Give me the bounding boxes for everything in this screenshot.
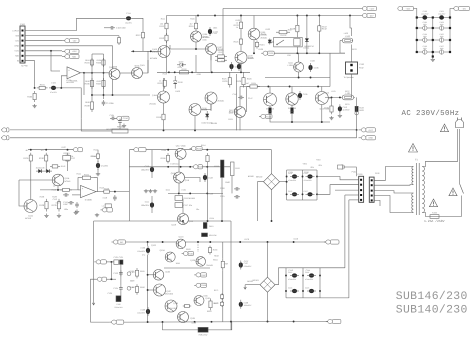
wire mains top <box>422 129 458 167</box>
wire rail417 <box>416 19 418 53</box>
svg-text:R142: R142 <box>61 165 66 168</box>
wire opamp minus in <box>61 76 67 88</box>
svg-text:Q118: Q118 <box>171 172 175 175</box>
wire p103 w1 <box>317 177 359 180</box>
svg-text:2N5401: 2N5401 <box>206 264 213 267</box>
svg-text:C127: C127 <box>304 190 308 193</box>
op-amp IC100B <box>81 186 97 202</box>
capacitor C137 <box>239 261 243 270</box>
svg-text:C117: C117 <box>56 202 60 205</box>
resistor R137 <box>66 153 76 164</box>
resistor R164 <box>221 259 224 271</box>
svg-text:100u/35V: 100u/35V <box>141 168 150 171</box>
wire q115 r <box>328 98 331 104</box>
resistor R134 <box>247 85 260 88</box>
junction dots outstage <box>291 121 323 123</box>
svg-text:R105: R105 <box>97 59 102 62</box>
svg-text:R138: R138 <box>39 204 45 207</box>
wire q108 r <box>201 104 211 110</box>
component R133 <box>355 106 358 111</box>
wire cross v2 <box>120 291 122 296</box>
resistor R140 <box>60 188 72 191</box>
svg-text:Q114: Q114 <box>65 177 71 180</box>
svg-text:C103 100n: C103 100n <box>116 27 126 30</box>
transistor Q129 <box>178 312 189 323</box>
svg-text:R137: R137 <box>345 90 350 93</box>
capacitor C144 <box>307 273 316 277</box>
svg-text:L100: L100 <box>344 32 348 35</box>
svg-text:1k: 1k <box>236 26 238 29</box>
capacitor C124 <box>290 174 299 178</box>
net flag NET2 <box>62 49 79 53</box>
transistor Q103 <box>152 46 170 58</box>
svg-text:BC546: BC546 <box>65 180 71 183</box>
wire v161 <box>163 122 165 130</box>
svg-text:R163: R163 <box>214 254 219 257</box>
svg-text:1k: 1k <box>236 22 238 25</box>
net flag VTOP <box>362 6 376 10</box>
net flag FT1 <box>340 165 345 169</box>
wire ft1 wire <box>343 167 357 176</box>
svg-text:R164: R164 <box>213 258 218 261</box>
svg-text:Q128: Q128 <box>173 302 178 305</box>
wire q115 up <box>321 87 323 92</box>
junction dots bus242 <box>147 241 295 243</box>
junction dots bus321 <box>147 321 295 323</box>
net flag FC1 <box>398 6 414 10</box>
wire q114 up <box>291 87 293 93</box>
connector P102 pins <box>350 64 352 66</box>
power switch <box>460 184 464 194</box>
svg-text:+15V: +15V <box>406 7 411 10</box>
net flag NET3 <box>62 54 79 58</box>
junction dots mid bus189 <box>57 189 68 191</box>
ground gnd opamp <box>74 211 78 215</box>
svg-text:C139: C139 <box>140 309 145 312</box>
resistor R124 <box>255 41 265 49</box>
svg-text:1845: 1845 <box>176 262 180 265</box>
svg-text:R159: R159 <box>209 193 214 196</box>
junction dots bus77 <box>298 77 312 79</box>
resistor R155 <box>161 153 170 163</box>
wire c103 link <box>104 27 109 29</box>
capacitor C100 <box>421 10 429 20</box>
svg-text:P102: P102 <box>375 172 379 175</box>
svg-text:C122: C122 <box>208 177 213 180</box>
wire mains cord2 <box>459 129 461 161</box>
ground gnd C112 <box>338 114 342 118</box>
svg-text:+15V: +15V <box>72 50 77 53</box>
wire in bus <box>84 72 109 74</box>
wire v297 <box>296 16 298 23</box>
wire caprow2 l <box>417 39 433 41</box>
wire v241b <box>240 31 242 37</box>
svg-text:47u/25V: 47u/25V <box>101 164 109 167</box>
svg-text:R141: R141 <box>84 174 90 177</box>
wire midamp v3 <box>182 199 184 213</box>
svg-text:C131: C131 <box>114 256 119 259</box>
wire br2 bot <box>267 292 269 321</box>
wire q114 dn <box>291 105 293 108</box>
transistor Q118 <box>174 172 185 183</box>
svg-text:C144: C144 <box>306 269 311 272</box>
svg-text:100n: 100n <box>64 208 68 211</box>
wire v306 <box>306 16 308 36</box>
bridge rectifier BR101 <box>253 277 275 292</box>
diode D107 <box>268 39 272 45</box>
transistor Q117 <box>175 148 186 159</box>
resistor R144 <box>91 152 100 160</box>
svg-text:Q112: Q112 <box>229 111 233 114</box>
junction dots busL <box>163 129 196 131</box>
svg-text:R111: R111 <box>161 18 165 21</box>
svg-text:C1 100n: C1 100n <box>106 102 115 105</box>
resistor R128 <box>290 23 299 35</box>
wire bus166 <box>129 166 230 168</box>
wire out vert2 <box>356 130 358 138</box>
resistor R111 <box>159 21 168 31</box>
svg-text:C135: C135 <box>107 292 112 295</box>
wire out2 <box>112 191 130 193</box>
svg-text:R126: R126 <box>236 80 242 83</box>
wire fb node <box>58 88 81 118</box>
component D112 <box>175 203 192 208</box>
svg-text:R125: R125 <box>222 78 227 81</box>
svg-text:R131: R131 <box>345 103 350 106</box>
wire front link2 <box>195 42 197 49</box>
wire pin5 <box>25 50 62 52</box>
arrow net2 <box>244 285 247 290</box>
wire rail147 <box>147 242 149 246</box>
net flag FB3 <box>96 277 107 281</box>
svg-text:R143: R143 <box>104 187 110 190</box>
capacitor C141 <box>237 62 241 71</box>
svg-text:R141: R141 <box>76 173 81 176</box>
svg-text:470R: 470R <box>196 73 201 76</box>
transistor Q105 <box>248 28 267 40</box>
svg-text:C135: C135 <box>116 303 120 306</box>
capacitor C120 <box>234 187 240 191</box>
svg-text:AC 230V/50Hz: AC 230V/50Hz <box>402 109 460 118</box>
wire front vert e <box>194 116 196 131</box>
svg-text:-: - <box>68 75 69 78</box>
svg-text:4700u/35V: 4700u/35V <box>288 179 297 182</box>
svg-text:BR101: BR101 <box>253 279 260 282</box>
svg-text:100u/35V: 100u/35V <box>137 311 145 314</box>
wire v30 dn <box>30 163 32 199</box>
capacitor C116 <box>63 193 69 197</box>
wire fb right <box>94 178 98 192</box>
wire rail449 <box>449 19 451 53</box>
svg-text:2SA1943: 2SA1943 <box>169 307 177 310</box>
connector P100 <box>20 23 26 63</box>
wire q111 up <box>298 53 300 62</box>
wire caprow0 l <box>417 17 433 19</box>
resistor R125 <box>222 75 231 88</box>
wire br1 top <box>271 150 273 174</box>
wire br1 bot <box>271 190 273 221</box>
svg-text:IN: IN <box>17 60 20 63</box>
wire wire268 <box>164 267 210 269</box>
wire p103 w2 <box>317 185 359 195</box>
svg-text:R118: R118 <box>163 73 167 76</box>
svg-text:R113: R113 <box>159 37 165 40</box>
ground gnd capbank <box>431 58 435 62</box>
svg-text:R176: R176 <box>244 238 249 241</box>
svg-text:C109: C109 <box>303 93 308 96</box>
svg-text:R144: R144 <box>93 148 98 151</box>
net flag FBR1 <box>326 319 341 323</box>
svg-text:MID: MID <box>15 55 19 58</box>
svg-text:R121: R121 <box>234 40 240 43</box>
component R160 <box>221 160 225 177</box>
svg-text:4700u/35V: 4700u/35V <box>288 278 297 281</box>
transistor Q101 <box>132 64 143 78</box>
svg-text:Q117 1845: Q117 1845 <box>176 144 187 147</box>
svg-text:2N5401: 2N5401 <box>218 100 225 103</box>
svg-text:Q109: Q109 <box>248 55 254 58</box>
wire pin3 <box>25 40 62 42</box>
component RE1 <box>269 108 272 114</box>
transistor Q128 <box>165 300 177 312</box>
wire link268 up <box>320 267 345 269</box>
wire busTop <box>223 8 363 10</box>
wire opamp out <box>81 72 93 74</box>
svg-text:10k: 10k <box>70 155 73 158</box>
svg-text:R144: R144 <box>91 155 96 158</box>
svg-text:R103: R103 <box>27 95 33 98</box>
svg-text:R165: R165 <box>140 270 145 273</box>
svg-text:100mA: 100mA <box>303 47 310 50</box>
junction dots midamp <box>182 220 223 222</box>
svg-text:2N5401: 2N5401 <box>149 103 156 106</box>
capacitor C125 <box>290 192 299 196</box>
svg-text:Q113: Q113 <box>268 110 272 113</box>
op-amp IC100A <box>67 67 81 83</box>
ground gnd C114 <box>96 172 100 176</box>
wire v98 <box>97 150 99 153</box>
svg-text:RP101: RP101 <box>64 152 71 155</box>
svg-text:C117 10n: C117 10n <box>184 204 193 207</box>
ground gnd row a <box>144 189 148 193</box>
wire rail302 <box>302 170 304 200</box>
warning symbol W2 <box>409 144 418 153</box>
svg-text:SUB146/230: SUB146/230 <box>396 290 468 303</box>
wire colA <box>91 54 93 99</box>
resistor R163 <box>208 246 211 255</box>
wire opamp fb <box>83 73 85 95</box>
transistor Q130 <box>194 296 204 306</box>
svg-text:R172: R172 <box>214 302 219 305</box>
wire front vert i <box>240 62 242 72</box>
connector P104 <box>369 177 374 202</box>
diode D104 <box>205 111 209 120</box>
wire midamp v2 <box>178 159 180 172</box>
svg-text:R155: R155 <box>161 149 166 152</box>
svg-text:D100: D100 <box>178 81 184 84</box>
wire out bus <box>325 96 355 98</box>
connector P102 <box>346 62 358 74</box>
diode D100 <box>173 76 183 89</box>
svg-text:+42V: +42V <box>369 7 374 10</box>
net flag R168 <box>194 283 207 287</box>
resistor R139 <box>52 199 61 212</box>
net flag FT1b <box>338 165 343 169</box>
transistor Q125 <box>196 257 206 267</box>
net flag FL2 <box>1 136 9 140</box>
dashed link <box>197 242 199 252</box>
junction dots bus14 <box>197 15 351 17</box>
wire front vert d <box>163 103 165 112</box>
wire rail246 <box>246 87 248 113</box>
resistor R104 <box>85 58 94 67</box>
net flag R167 <box>194 273 207 277</box>
junction dots fb node <box>34 87 63 89</box>
svg-text:C111: C111 <box>145 201 149 204</box>
capacitor C106 <box>308 63 319 72</box>
wire mid wires1 <box>57 186 59 190</box>
resistor R108 <box>85 99 94 112</box>
wire v306b <box>306 45 308 53</box>
transistor Q127 <box>154 284 166 296</box>
wire rail330 <box>329 53 331 86</box>
wire v241 <box>240 16 242 20</box>
svg-text:C142: C142 <box>288 269 293 272</box>
wire c114 out <box>132 18 143 30</box>
wire pin6 <box>25 55 62 57</box>
component D113 <box>231 162 235 176</box>
svg-text:L101: L101 <box>331 90 335 93</box>
wire c110 up <box>151 150 153 165</box>
wire br2 top <box>267 242 269 277</box>
svg-text:Q119: Q119 <box>189 220 193 223</box>
resistor R138 <box>39 199 48 212</box>
svg-text:0R22: 0R22 <box>207 310 212 313</box>
wire v297c <box>296 47 298 53</box>
wire q113 up <box>269 87 271 94</box>
svg-text:R154: R154 <box>201 144 206 147</box>
wire minus in <box>72 194 81 196</box>
svg-text:100n: 100n <box>440 23 444 26</box>
svg-text:D116: D116 <box>294 237 298 240</box>
wire p104 w4 <box>374 196 413 213</box>
capacitor C112 <box>338 104 342 113</box>
wire bus221 <box>94 220 231 222</box>
wire rail303b <box>302 268 304 298</box>
svg-text:R171: R171 <box>214 289 219 292</box>
svg-text:Q126: Q126 <box>165 271 170 274</box>
resistor R119 <box>157 78 166 89</box>
wire mains switch feed <box>459 161 461 184</box>
svg-text:1.25A /250V: 1.25A /250V <box>424 219 445 223</box>
wire front link1 <box>170 48 205 50</box>
inductor T1 primary <box>422 167 424 213</box>
resistor R112 <box>136 30 145 40</box>
inductor L101 <box>342 92 354 100</box>
svg-text:4u7: 4u7 <box>132 271 135 274</box>
component R161 <box>202 233 208 237</box>
svg-text:R138: R138 <box>40 195 45 198</box>
wire railtop2 <box>286 267 320 269</box>
wire q112 up <box>239 87 241 107</box>
svg-text:R123: R123 <box>265 28 270 31</box>
svg-text:R140: R140 <box>51 189 56 192</box>
wire bus193 <box>168 192 223 194</box>
resistor R105 <box>96 58 105 67</box>
svg-text:47u/25V: 47u/25V <box>50 91 57 94</box>
svg-text:R155: R155 <box>161 157 167 160</box>
svg-text:C143: C143 <box>288 287 292 290</box>
wire front vert g <box>229 72 231 75</box>
svg-text:10u/35V: 10u/35V <box>125 22 132 25</box>
wire rail286 <box>286 170 288 200</box>
wire p103 w5 <box>349 199 359 201</box>
svg-text:Q123: Q123 <box>178 235 184 238</box>
transistor Q124 <box>165 252 175 262</box>
wire p104 w3 <box>374 191 413 193</box>
svg-text:C113: C113 <box>53 198 57 201</box>
wire pin1 LSPOT <box>25 18 125 30</box>
junction dots bus86 <box>267 86 319 88</box>
svg-text:Q114: Q114 <box>290 110 294 113</box>
svg-text:470R: 470R <box>223 263 228 266</box>
resistor R136 <box>39 153 48 164</box>
wire br2 left <box>245 284 260 286</box>
svg-text:BR100: BR100 <box>256 176 263 179</box>
component C131 <box>114 260 119 265</box>
wire bus150L <box>28 149 74 151</box>
wire v98b <box>97 160 99 162</box>
net flag R156 <box>190 146 203 150</box>
svg-text:MA165: MA165 <box>211 122 217 125</box>
svg-text:2200u/16V: 2200u/16V <box>114 306 123 309</box>
wire mains bottom <box>439 216 462 218</box>
wire q112 dn <box>239 118 241 131</box>
wire bus86 <box>240 86 330 88</box>
wire q127 wires <box>148 289 154 291</box>
capacitor C101 <box>438 10 446 20</box>
resistor R171 <box>220 293 223 300</box>
svg-text:1845: 1845 <box>203 295 207 298</box>
wire bus150M <box>129 149 271 151</box>
net flag FR2 <box>359 136 376 140</box>
wire v93 <box>93 221 95 302</box>
capacitor C143 <box>290 289 299 293</box>
svg-text:R107: R107 <box>97 80 102 83</box>
svg-text:BC556: BC556 <box>25 217 31 220</box>
svg-text:C138: C138 <box>244 301 249 304</box>
capacitor C106b <box>102 100 115 106</box>
component D111 <box>175 196 196 201</box>
svg-text:T1: T1 <box>415 159 418 162</box>
junction dots out bus <box>331 96 341 98</box>
svg-text:C104: C104 <box>109 114 114 117</box>
transistor Q108 <box>189 104 208 116</box>
wire c111 up <box>151 196 153 201</box>
wire br2 right <box>275 268 286 285</box>
net flag FC2 <box>454 6 470 10</box>
svg-text:C131: C131 <box>119 256 124 259</box>
wire fb loop2 <box>19 179 52 181</box>
svg-text:R108: R108 <box>85 104 91 107</box>
svg-text:C133: C133 <box>113 272 118 275</box>
svg-text:4700u/35V: 4700u/35V <box>305 278 314 281</box>
wire rail236 <box>236 74 238 130</box>
wire x148 vert <box>147 52 149 74</box>
wire bus51 <box>131 50 158 52</box>
wire pin7 <box>25 61 35 88</box>
wire spk up <box>350 16 352 37</box>
